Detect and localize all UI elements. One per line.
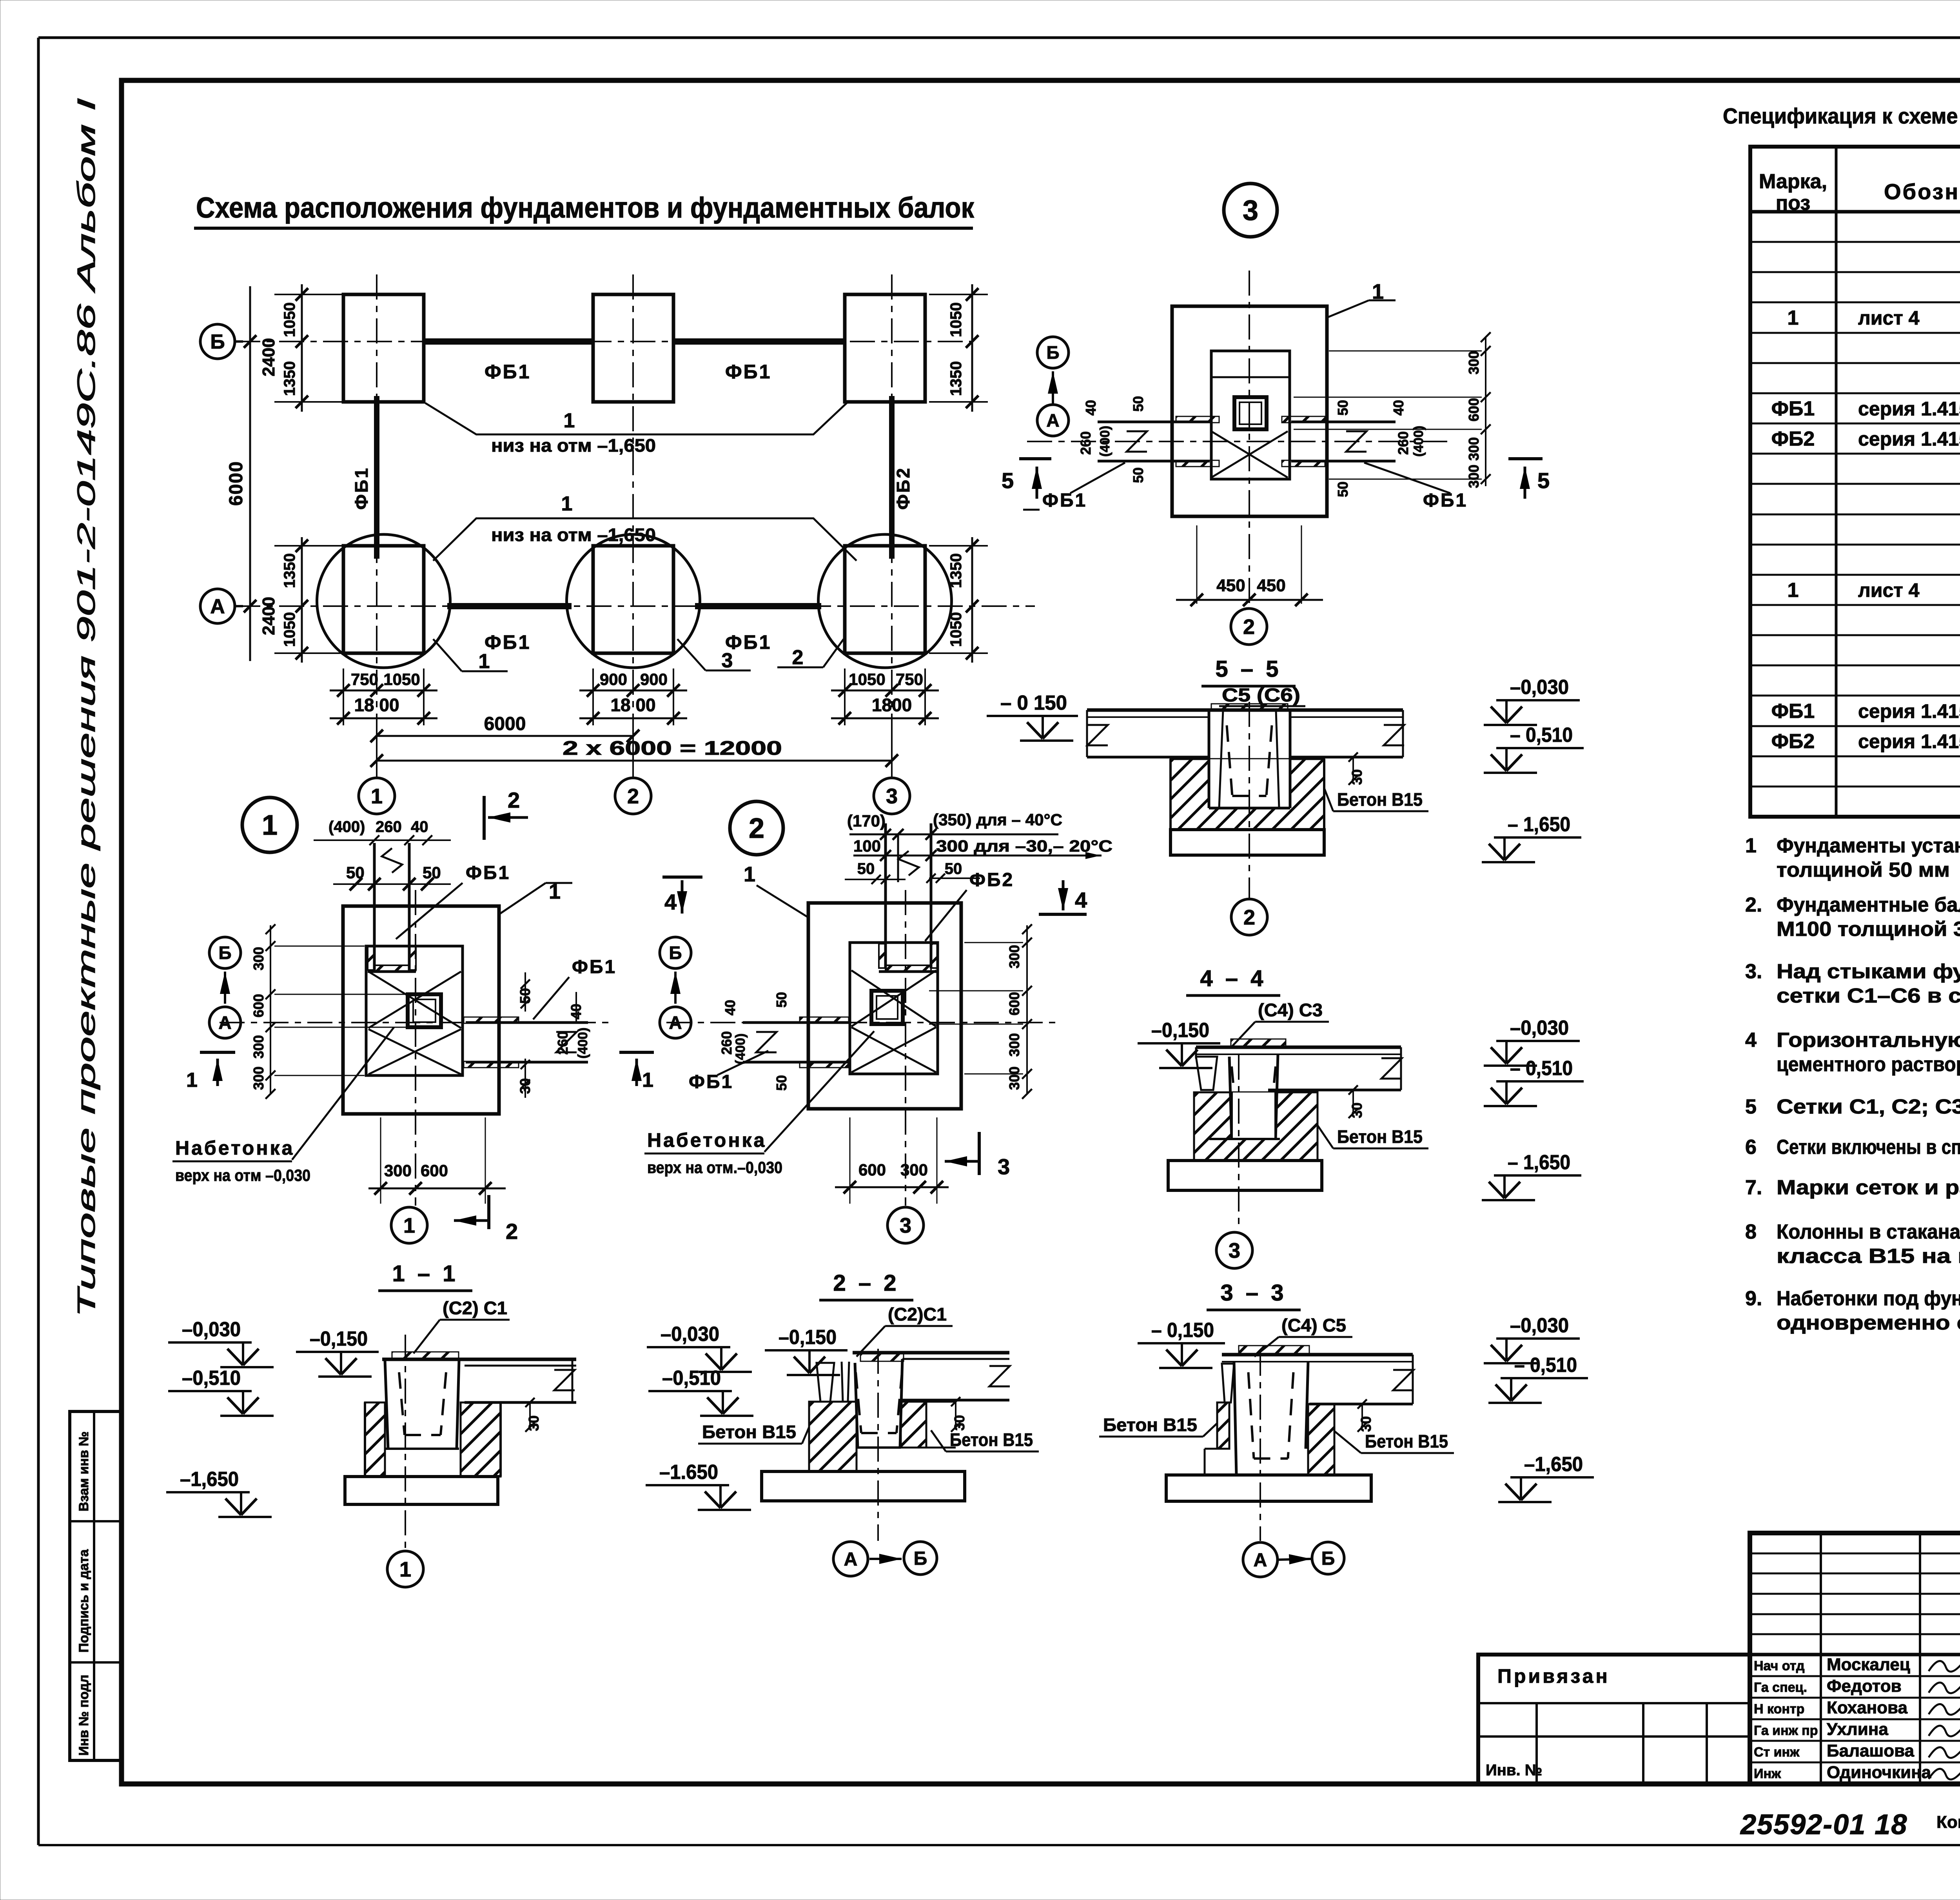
svg-text:3: 3	[900, 1214, 911, 1237]
svg-text:ФБ1: ФБ1	[689, 1072, 733, 1092]
svg-text:Марка,: Марка,	[1759, 170, 1827, 193]
svg-text:А: А	[218, 1012, 231, 1033]
svg-text:1350: 1350	[947, 361, 965, 396]
svg-text:30: 30	[1349, 1103, 1365, 1118]
svg-text:300: 300	[250, 947, 267, 970]
svg-text:40: 40	[722, 1000, 738, 1015]
svg-text:– 0,510: – 0,510	[1510, 724, 1573, 747]
svg-text:2: 2	[1243, 615, 1255, 639]
svg-text:40: 40	[411, 818, 428, 836]
svg-text:2: 2	[508, 788, 520, 812]
svg-text:ФБ1: ФБ1	[1042, 490, 1087, 511]
svg-text:5 – 5: 5 – 5	[1216, 656, 1282, 682]
svg-text:260: 260	[555, 1031, 571, 1055]
svg-text:450: 450	[1257, 576, 1285, 595]
svg-text:1: 1	[564, 409, 575, 432]
svg-text:(С4) С5: (С4) С5	[1281, 1315, 1346, 1335]
svg-text:3: 3	[1229, 1239, 1240, 1262]
svg-text:Фундаментные балки укладываю: Фундаментные балки укладываются на цемен…	[1777, 894, 1960, 916]
svg-text:–0,150: –0,150	[779, 1326, 837, 1349]
svg-text:лист 4: лист 4	[1858, 579, 1920, 601]
svg-text:ФБ1: ФБ1	[466, 863, 510, 883]
svg-text:(170): (170)	[847, 812, 886, 830]
svg-text:– 1,650: – 1,650	[1508, 813, 1570, 836]
svg-text:30: 30	[1358, 1416, 1374, 1432]
svg-text:Над стыками фундаментных ба: Над стыками фундаментных балок с фундаме…	[1777, 960, 1960, 983]
svg-text:18 00: 18 00	[610, 695, 655, 715]
svg-text:Обозначение: Обозначение	[1884, 179, 1960, 204]
svg-text:– 1,650: – 1,650	[1508, 1151, 1570, 1174]
svg-text:(350) для – 40°С: (350) для – 40°С	[933, 810, 1062, 829]
svg-text:ФБ1: ФБ1	[1771, 700, 1815, 723]
svg-text:600: 600	[1006, 992, 1022, 1015]
svg-text:Н контр: Н контр	[1754, 1702, 1804, 1717]
svg-text:50: 50	[1130, 396, 1146, 412]
svg-text:100: 100	[853, 837, 881, 855]
svg-text:50: 50	[773, 1075, 789, 1091]
svg-text:30: 30	[526, 1415, 542, 1431]
svg-text:–0,510: –0,510	[662, 1367, 721, 1390]
svg-text:600: 600	[858, 1161, 886, 1179]
svg-text:Инв № подл: Инв № подл	[76, 1675, 91, 1756]
svg-text:низ на отм –1,650: низ на отм –1,650	[491, 525, 656, 545]
svg-text:18 00: 18 00	[354, 695, 399, 715]
svg-text:поз: поз	[1776, 192, 1810, 214]
svg-text:1050: 1050	[383, 670, 420, 688]
svg-text:–0,510: –0,510	[182, 1367, 241, 1390]
svg-text:–0,030: –0,030	[1510, 676, 1569, 699]
svg-text:50: 50	[773, 992, 789, 1008]
svg-text:Инв. №: Инв. №	[1486, 1762, 1542, 1779]
svg-text:Набетонка: Набетонка	[175, 1137, 294, 1159]
svg-text:лист 4: лист 4	[1858, 307, 1920, 329]
svg-text:Спецификация к схеме распол: Спецификация к схеме расположения фундам…	[1723, 104, 1960, 128]
svg-text:1: 1	[479, 650, 490, 673]
svg-text:25592-01 18: 25592-01 18	[1740, 1809, 1907, 1840]
svg-text:А: А	[844, 1549, 858, 1570]
svg-text:ФБ1: ФБ1	[1423, 490, 1468, 511]
svg-text:2400: 2400	[259, 597, 278, 635]
svg-text:260: 260	[1078, 431, 1094, 455]
svg-text:ФБ1: ФБ1	[572, 957, 617, 977]
svg-text:3 – 3: 3 – 3	[1221, 1280, 1287, 1306]
svg-text:Привязан: Привязан	[1497, 1665, 1610, 1687]
svg-text:Б: Б	[218, 943, 231, 963]
svg-text:Нач отд: Нач отд	[1754, 1658, 1805, 1673]
svg-text:Взам инв №: Взам инв №	[76, 1431, 91, 1511]
svg-text:–0,030: –0,030	[1510, 1017, 1569, 1039]
svg-text:ФБ2: ФБ2	[969, 870, 1014, 890]
svg-text:260: 260	[376, 818, 402, 836]
svg-text:6000: 6000	[226, 461, 247, 506]
svg-text:1050: 1050	[849, 670, 885, 688]
svg-text:300: 300	[384, 1161, 412, 1180]
svg-text:2: 2	[1243, 906, 1255, 929]
svg-text:–1.650: –1.650	[659, 1461, 718, 1484]
svg-text:6: 6	[1745, 1136, 1757, 1159]
svg-text:2 – 2: 2 – 2	[833, 1270, 900, 1296]
svg-text:Колонны в стаканах фундамен: Колонны в стаканах фундаментов замонолит…	[1777, 1221, 1960, 1243]
svg-text:5: 5	[1002, 468, 1014, 493]
svg-text:(400): (400)	[733, 1034, 748, 1064]
svg-text:600: 600	[1466, 398, 1482, 421]
svg-text:ФБ2: ФБ2	[1771, 730, 1815, 753]
svg-text:–0,030: –0,030	[1510, 1314, 1569, 1337]
svg-text:300: 300	[1466, 351, 1482, 374]
svg-text:3: 3	[886, 785, 898, 808]
svg-text:ФБ1: ФБ1	[485, 361, 531, 383]
svg-text:Одиночкина: Одиночкина	[1827, 1763, 1931, 1782]
svg-text:3: 3	[1243, 195, 1258, 226]
svg-text:1 – 1: 1 – 1	[392, 1261, 459, 1286]
svg-text:1: 1	[1788, 307, 1799, 329]
svg-text:– 0 150: – 0 150	[1000, 692, 1067, 714]
svg-text:7.: 7.	[1745, 1176, 1762, 1199]
svg-text:1: 1	[1745, 834, 1757, 857]
svg-text:–0,030: –0,030	[661, 1323, 719, 1346]
svg-text:40: 40	[1390, 400, 1406, 416]
svg-text:Ухлина: Ухлина	[1827, 1720, 1888, 1739]
svg-text:4: 4	[664, 890, 677, 914]
svg-text:3: 3	[722, 649, 733, 672]
svg-text:40: 40	[1083, 400, 1099, 416]
svg-text:Сетки включены в спецификац: Сетки включены в спецификацию на листе А…	[1777, 1136, 1960, 1159]
svg-text:40: 40	[568, 1004, 584, 1019]
svg-text:– 0,150: – 0,150	[1151, 1319, 1214, 1342]
svg-text:А: А	[210, 595, 225, 618]
svg-text:Б: Б	[1046, 342, 1059, 363]
svg-text:Федотов: Федотов	[1827, 1677, 1902, 1696]
svg-text:6000: 6000	[484, 714, 526, 734]
svg-text:300: 300	[1466, 437, 1482, 461]
svg-text:Бетон В15: Бетон В15	[1365, 1431, 1448, 1451]
svg-text:ФБ1: ФБ1	[485, 631, 531, 653]
svg-text:300: 300	[900, 1161, 928, 1179]
svg-text:1800: 1800	[872, 695, 912, 715]
svg-text:600: 600	[250, 994, 267, 1017]
svg-text:2: 2	[792, 646, 804, 669]
svg-text:–0,150: –0,150	[1151, 1019, 1209, 1042]
svg-text:50: 50	[1335, 400, 1351, 416]
svg-text:(400): (400)	[1411, 426, 1426, 457]
svg-text:1: 1	[642, 1069, 653, 1092]
svg-text:А: А	[1254, 1550, 1267, 1571]
svg-text:750: 750	[896, 670, 923, 688]
svg-text:750: 750	[351, 670, 378, 688]
svg-text:1: 1	[744, 863, 755, 886]
svg-text:300: 300	[1006, 945, 1022, 968]
svg-text:1: 1	[262, 810, 278, 841]
svg-text:1050: 1050	[947, 612, 965, 647]
svg-text:900: 900	[640, 670, 668, 688]
svg-text:50: 50	[857, 860, 875, 877]
svg-text:300: 300	[250, 1066, 267, 1090]
svg-text:серия 1.415-1, в.1, л.18: серия 1.415-1, в.1, л.18	[1858, 428, 1960, 450]
svg-text:1050: 1050	[281, 302, 298, 337]
svg-text:– 0,510: – 0,510	[1510, 1057, 1573, 1080]
svg-text:Б: Б	[1321, 1548, 1335, 1569]
svg-text:2.: 2.	[1745, 894, 1762, 916]
svg-text:Бетон В15: Бетон В15	[1103, 1415, 1197, 1435]
svg-text:1050: 1050	[281, 612, 298, 647]
svg-text:ФБ2: ФБ2	[893, 467, 913, 510]
svg-text:– 0,510: – 0,510	[1514, 1354, 1577, 1377]
svg-text:класса В15 на мелком щебне: класса В15 на мелком щебне.	[1777, 1245, 1960, 1268]
svg-text:(400): (400)	[1098, 426, 1112, 457]
svg-text:(400): (400)	[328, 818, 365, 836]
svg-text:А: А	[669, 1012, 682, 1033]
svg-text:1: 1	[399, 1558, 411, 1581]
svg-text:низ на отм –1,650: низ на отм –1,650	[491, 435, 656, 456]
svg-text:Копировала: Копировала	[1936, 1813, 1960, 1832]
svg-text:Марки сеток и размеры в к: Марки сеток и размеры в круглых скобках …	[1777, 1176, 1960, 1199]
svg-text:1: 1	[371, 785, 383, 808]
svg-text:ФБ1: ФБ1	[351, 467, 372, 510]
svg-text:9.: 9.	[1745, 1287, 1762, 1310]
svg-text:260: 260	[719, 1031, 735, 1055]
svg-text:ФБ1: ФБ1	[725, 361, 771, 383]
svg-text:Балашова: Балашова	[1827, 1741, 1915, 1760]
svg-text:серия 1.415-1, в.1, л.18: серия 1.415-1, в.1, л.18	[1858, 700, 1960, 722]
svg-text:30: 30	[951, 1415, 967, 1431]
svg-text:1: 1	[186, 1069, 198, 1092]
svg-text:50: 50	[945, 860, 962, 877]
svg-text:Бетон В15: Бетон В15	[1337, 789, 1423, 810]
svg-text:3.: 3.	[1745, 960, 1762, 983]
svg-text:300: 300	[1006, 1066, 1022, 1090]
svg-text:серия 1.415-1, в.1, л.8: серия 1.415-1, в.1, л.8	[1858, 398, 1960, 420]
svg-text:450: 450	[1216, 576, 1245, 595]
svg-text:Б: Б	[669, 943, 682, 963]
svg-text:Га инж пр: Га инж пр	[1754, 1723, 1818, 1738]
svg-text:Бетон В15: Бетон В15	[702, 1422, 796, 1442]
svg-text:Подпись и дата: Подпись и дата	[76, 1549, 91, 1653]
svg-text:серия 1.415-1, в.1, л 35: серия 1.415-1, в.1, л 35	[1858, 730, 1960, 752]
svg-text:одновременно с телом фундаме: одновременно с телом фундамента	[1777, 1311, 1960, 1334]
svg-text:2: 2	[749, 813, 764, 844]
svg-text:Бетон В15: Бетон В15	[950, 1430, 1033, 1450]
svg-text:–1,650: –1,650	[1524, 1453, 1583, 1476]
svg-text:1: 1	[403, 1214, 415, 1237]
svg-text:30: 30	[517, 1078, 533, 1094]
svg-text:Сетки С1, С2; С3; С4; С5; С6: Сетки С1, С2; С3; С4; С5; С6 см альбом I…	[1777, 1095, 1960, 1118]
svg-text:ФБ2: ФБ2	[1771, 428, 1815, 450]
svg-text:верх на отм –0,030: верх на отм –0,030	[175, 1166, 310, 1184]
svg-text:3: 3	[998, 1154, 1010, 1179]
svg-text:(С4) С3: (С4) С3	[1258, 1000, 1323, 1020]
svg-text:2 x 6000 = 12000: 2 x 6000 = 12000	[563, 737, 782, 759]
svg-text:2: 2	[627, 785, 639, 808]
svg-text:Фундаменты устанавливаются н: Фундаменты устанавливаются на бетонную п…	[1777, 834, 1960, 857]
svg-text:50: 50	[517, 988, 533, 1004]
svg-text:ФБ1: ФБ1	[1771, 397, 1815, 420]
svg-text:260: 260	[1395, 431, 1411, 455]
svg-text:50: 50	[1335, 481, 1351, 497]
svg-text:(С2)С1: (С2)С1	[888, 1304, 947, 1324]
svg-text:1: 1	[1788, 579, 1799, 601]
svg-text:300: 300	[1466, 465, 1482, 488]
svg-text:Набетонка: Набетонка	[647, 1129, 766, 1151]
svg-text:1050: 1050	[947, 302, 965, 337]
svg-text:30: 30	[1349, 769, 1365, 785]
svg-text:8: 8	[1745, 1221, 1757, 1243]
svg-text:–0,030: –0,030	[182, 1318, 241, 1341]
svg-text:50: 50	[1130, 467, 1146, 483]
svg-text:1350: 1350	[281, 361, 298, 396]
svg-text:Набетонки под фундаментные: Набетонки под фундаментные балки бетонир…	[1777, 1287, 1960, 1310]
svg-text:Москалец: Москалец	[1827, 1655, 1910, 1674]
svg-text:Типовые проектные решения 9: Типовые проектные решения 901-2-0149С.86…	[72, 98, 100, 1317]
svg-text:–1,650: –1,650	[180, 1468, 239, 1491]
svg-text:600: 600	[421, 1161, 448, 1180]
svg-text:Б: Б	[210, 331, 225, 353]
svg-text:1350: 1350	[281, 553, 298, 588]
svg-text:5: 5	[1745, 1095, 1757, 1118]
svg-text:1350: 1350	[947, 553, 965, 588]
svg-text:цементного раствора состава: цементного раствора состава 1:2 толщиной…	[1777, 1053, 1960, 1076]
svg-text:Схема расположения фундамент: Схема расположения фундаментов и фундаме…	[196, 191, 975, 224]
svg-text:Горизонтальную гидроизоляцию: Горизонтальную гидроизоляцию на отм. –0,…	[1777, 1029, 1960, 1052]
svg-text:900: 900	[600, 670, 627, 688]
svg-text:верх на отм.–0,030: верх на отм.–0,030	[647, 1158, 782, 1177]
svg-text:Бетон В15: Бетон В15	[1337, 1126, 1423, 1147]
svg-text:Ст инж: Ст инж	[1754, 1745, 1800, 1760]
svg-text:сетки С1–С6 в слое цементн: сетки С1–С6 в слое цементного раствора.	[1777, 985, 1960, 1007]
svg-text:Га спец.: Га спец.	[1754, 1680, 1807, 1695]
svg-text:5: 5	[1537, 468, 1550, 493]
svg-text:А: А	[1046, 410, 1059, 430]
svg-text:(С2) С1: (С2) С1	[443, 1298, 507, 1318]
svg-text:2400: 2400	[259, 338, 278, 376]
svg-text:Б: Б	[914, 1548, 927, 1569]
svg-text:С5 (С6): С5 (С6)	[1222, 685, 1300, 706]
svg-text:4: 4	[1075, 888, 1087, 912]
svg-text:1: 1	[561, 492, 573, 515]
svg-text:4 – 4: 4 – 4	[1200, 966, 1267, 991]
svg-text:Инж: Инж	[1754, 1766, 1781, 1781]
svg-text:4: 4	[1745, 1029, 1757, 1052]
svg-text:300: 300	[250, 1035, 267, 1059]
svg-text:–0,150: –0,150	[310, 1328, 368, 1350]
svg-text:300: 300	[1006, 1033, 1022, 1057]
svg-text:(400): (400)	[575, 1028, 590, 1059]
svg-text:толщиной 50 мм: толщиной 50 мм	[1777, 859, 1950, 881]
svg-text:2: 2	[506, 1219, 518, 1244]
svg-text:М100 толщиной 30 мм: М100 толщиной 30 мм	[1777, 918, 1960, 941]
svg-text:Коханова: Коханова	[1827, 1698, 1908, 1717]
